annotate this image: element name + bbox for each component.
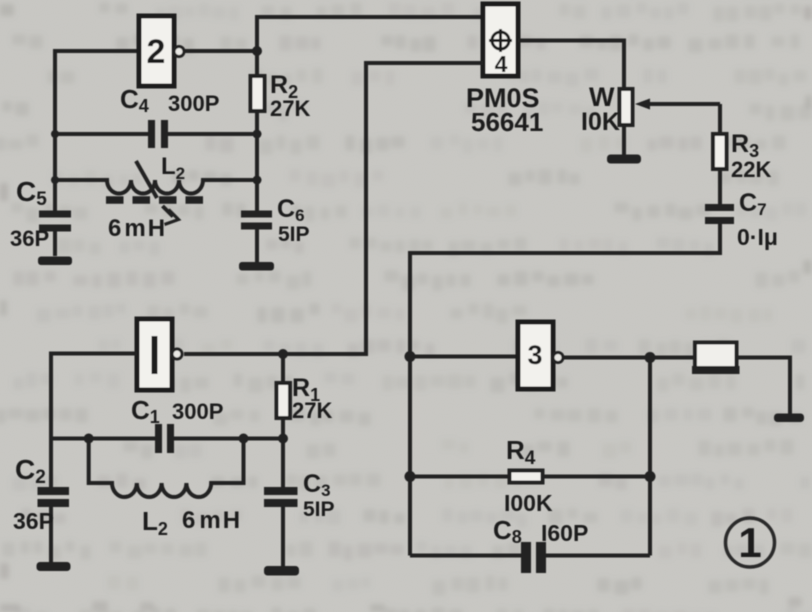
- label 6mH (lower): [182, 507, 240, 534]
- label L2 (lower): [142, 506, 168, 539]
- svg-text:5IP: 5IP: [303, 498, 335, 521]
- label 160P (C8 value): [541, 520, 588, 546]
- wire: R1 top rail: [281, 354, 285, 383]
- wire: box 4 lower pin to box 1 output: [184, 63, 483, 354]
- wire: box 3 input: [410, 355, 518, 359]
- label 36P (C5 value): [10, 226, 49, 251]
- label C6: [277, 195, 305, 225]
- node: box 3 input junction: [405, 351, 416, 362]
- wire: box 1 input to left rail: [51, 354, 137, 488]
- svg-text:6mH: 6mH: [108, 215, 165, 242]
- label R4: [506, 435, 536, 469]
- label C3: [303, 470, 331, 500]
- resistor R1: [277, 383, 291, 418]
- svg-text:I0K: I0K: [581, 108, 620, 136]
- inductor L2 (upper, with core): [55, 180, 257, 194]
- label 300P (C4 value): [168, 91, 219, 116]
- capacitor C3 plates: [264, 487, 298, 507]
- label C2: [15, 454, 46, 488]
- resistor R2: [251, 76, 265, 111]
- capacitor C8 plates: [521, 542, 546, 573]
- label 0.1u (C7 value): [737, 224, 778, 250]
- label W: [589, 82, 615, 112]
- wire: box 4 right pin to potentiometer: [518, 41, 624, 90]
- label PM0S: [466, 83, 540, 113]
- label C7: [739, 189, 767, 219]
- wire: R3 to C7: [718, 169, 722, 204]
- capacitor C6 plates: [241, 211, 272, 230]
- wiper arrow of W: [635, 99, 720, 110]
- gate box 2: [139, 16, 174, 86]
- node: L2 row right: [253, 176, 262, 185]
- capacitor C5 plates: [39, 211, 71, 232]
- svg-text:36P: 36P: [10, 226, 49, 251]
- label R1: [292, 374, 320, 405]
- wire: C2 to ground: [49, 507, 53, 562]
- wire: C1 row right segment: [174, 437, 283, 441]
- ground below C5: [38, 257, 72, 266]
- wire: component to ground drop: [737, 358, 791, 415]
- svg-text:5IP: 5IP: [278, 223, 310, 246]
- svg-text:300P: 300P: [172, 399, 223, 424]
- svg-text:I60P: I60P: [541, 520, 588, 546]
- wire: C7 return to mid rail: [410, 224, 720, 556]
- node: C1 row left stub: [84, 434, 94, 444]
- svg-text:0·Iμ: 0·Iμ: [737, 224, 778, 250]
- ground below C3: [264, 566, 299, 576]
- wire: output node down to R4 row: [648, 358, 652, 556]
- node: C1 row right stub: [239, 434, 249, 444]
- node: C4 row left: [51, 130, 59, 138]
- wire: W to ground: [622, 125, 626, 155]
- wire: R4 row: [410, 475, 650, 479]
- node: output junction: [645, 352, 656, 363]
- wire: R2 bottom through C4/L2 rows to C6: [255, 111, 259, 211]
- wire: node down to R2: [255, 51, 259, 76]
- svg-text:27K: 27K: [292, 398, 332, 423]
- wire: box 2 output to node: [184, 49, 257, 53]
- wire: wiper node down to R3: [718, 104, 722, 134]
- bubble on box 2 output: [174, 47, 184, 57]
- node: R1 top junction: [278, 349, 288, 359]
- polarity mark in box 4: [489, 29, 512, 52]
- svg-text:2: 2: [147, 33, 166, 71]
- gate box 4: [483, 4, 518, 77]
- potentiometer W body: [620, 89, 633, 125]
- capacitor C1 plates: [155, 424, 174, 453]
- wire: input net from box 2 to left rail: [55, 51, 139, 211]
- wire: C4 row left segment: [55, 132, 148, 136]
- ground at output: [774, 414, 804, 423]
- capacitor C4 plates: [148, 120, 168, 148]
- core dashes of L2 upper: [106, 196, 204, 204]
- svg-text:56641: 56641: [471, 107, 543, 137]
- label C4: [120, 84, 149, 116]
- wire: C3 to ground: [281, 507, 285, 566]
- wire: C4 row right segment: [168, 132, 257, 136]
- gate box 3: [518, 322, 553, 389]
- label 10K (W value): [581, 108, 620, 136]
- svg-text:36P: 36P: [13, 508, 54, 534]
- adjustment arrow through L2: [136, 161, 179, 225]
- label C5: [16, 176, 47, 210]
- capacitor C7 plates: [705, 204, 734, 224]
- bubble on box 3 output: [553, 353, 563, 363]
- label 22K (R3 value): [731, 157, 771, 182]
- label 51P (C3 value): [303, 498, 335, 521]
- label R2: [270, 71, 298, 102]
- wire: R1 bottom to C3: [281, 418, 285, 487]
- capacitor C2 plates: [38, 487, 70, 507]
- ground below C6: [239, 262, 274, 271]
- node: box2 output junction: [252, 46, 262, 56]
- label 27K (R2 value): [270, 96, 310, 121]
- label R3: [731, 130, 759, 161]
- gate box 1: [137, 319, 172, 390]
- wire: C1 row left segment: [51, 437, 155, 441]
- wire: C6 to ground: [255, 229, 259, 262]
- node: R4 row right: [645, 471, 656, 482]
- node: C4 row right: [253, 130, 262, 139]
- ground below C2: [37, 562, 71, 571]
- wire: top rail to box 4: [257, 17, 483, 51]
- resistor R4: [510, 471, 543, 483]
- label 56641: [471, 107, 543, 137]
- label L2 (upper): [161, 153, 185, 183]
- bubble on box 1 output: [172, 349, 182, 359]
- wire: C5 to ground: [53, 231, 57, 256]
- node: C1 row at R1 rail: [278, 434, 288, 444]
- label 100K (R4 value): [504, 490, 553, 516]
- label 27K (R1 value): [292, 398, 332, 423]
- crystal/output component: [692, 343, 740, 375]
- ground below W: [607, 155, 641, 164]
- label 300P (C1 value): [172, 399, 223, 424]
- node: R4 row left: [405, 471, 416, 482]
- svg-text:1: 1: [738, 519, 761, 566]
- figure number 1: [726, 518, 775, 567]
- label 36P (C2 value): [13, 508, 54, 534]
- label 6mH (upper): [108, 215, 165, 242]
- label C8: [493, 515, 522, 547]
- svg-text:22K: 22K: [731, 157, 771, 182]
- inductor L2 (lower): [89, 439, 244, 498]
- svg-text:27K: 27K: [270, 96, 310, 121]
- wire: C8 row left segment: [410, 554, 521, 558]
- svg-text:6mH: 6mH: [182, 507, 240, 534]
- svg-text:4: 4: [495, 51, 508, 77]
- svg-text:I00K: I00K: [504, 490, 553, 516]
- label C1: [131, 395, 160, 427]
- wire: C8 row right segment: [546, 554, 650, 558]
- resistor R3: [713, 134, 727, 169]
- node: L2 row left: [51, 176, 59, 184]
- svg-text:300P: 300P: [168, 91, 219, 116]
- svg-text:3: 3: [527, 340, 542, 370]
- wire: box 3 output to crystal: [563, 356, 695, 360]
- label 51P (C6 value): [278, 223, 310, 246]
